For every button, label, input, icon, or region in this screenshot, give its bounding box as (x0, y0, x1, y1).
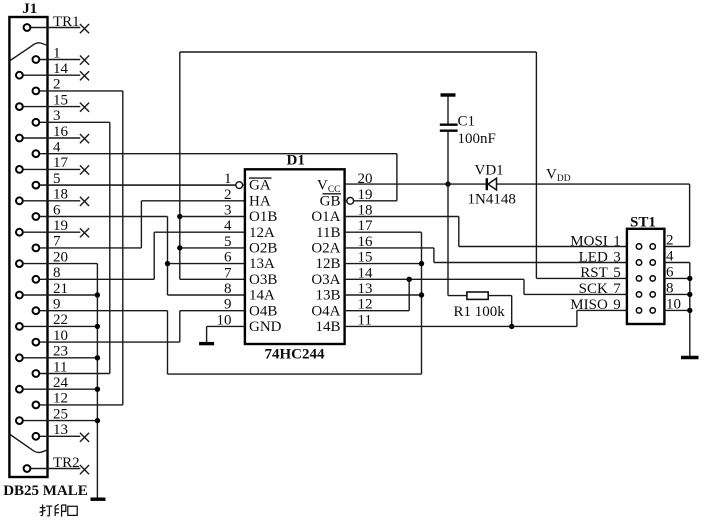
svg-text:SCK: SCK (579, 281, 608, 297)
svg-text:23: 23 (53, 344, 68, 360)
wire O1B/O2B/O3B bus with top route to RST (179, 52, 181, 279)
J1 pin 9 (33, 307, 40, 314)
svg-text:6: 6 (53, 202, 61, 218)
svg-text:C1: C1 (458, 114, 476, 130)
svg-text:22: 22 (53, 312, 68, 328)
ST1 pin 3 (LED) (636, 260, 641, 265)
junction R1 to MISO/14B line (509, 324, 514, 329)
svg-text:VDD: VDD (546, 167, 571, 185)
J1 chinese label (printer port) (39, 505, 52, 516)
svg-text:1: 1 (613, 233, 621, 249)
J1 pin 11 (33, 370, 40, 377)
svg-text:15: 15 (53, 92, 68, 108)
wire J1.2 to J1.12 loopback (122, 91, 124, 405)
svg-text:5: 5 (613, 265, 621, 281)
wire J1.3 to J1.11 loopback (109, 122, 111, 373)
junction 13B (419, 292, 424, 297)
J1 pin 7 (33, 245, 40, 252)
J1 pin TR2 (no connect) (24, 465, 31, 472)
wire VCC rail (pin20) to VDD / ST1.2 (345, 183, 690, 185)
J1 pin 8 (33, 276, 40, 283)
svg-text:O1B: O1B (249, 209, 277, 225)
svg-text:14A: 14A (249, 288, 275, 304)
wire 11B/12B/13B bus (345, 231, 422, 233)
svg-text:13: 13 (53, 422, 68, 438)
diode VD1 1N4148 (486, 178, 488, 190)
svg-text:74HC244: 74HC244 (265, 347, 326, 363)
wire J1.5 to GA (40, 184, 245, 186)
wire 14B to MISO (345, 325, 577, 327)
svg-text:RST: RST (580, 265, 608, 281)
svg-text:TR1: TR1 (53, 14, 80, 30)
ST1 pin 8 (650, 292, 655, 297)
ground (below ST1) (681, 356, 699, 359)
svg-text:19: 19 (358, 187, 373, 203)
svg-text:TR2: TR2 (53, 455, 80, 471)
wire O1A to MOSI (345, 216, 459, 218)
svg-text:9: 9 (613, 297, 621, 313)
svg-text:D1: D1 (287, 153, 305, 169)
svg-text:10: 10 (53, 328, 68, 344)
J1 pin 24 (16, 386, 23, 393)
svg-text:11B: 11B (316, 225, 340, 241)
svg-text:8: 8 (53, 265, 61, 281)
svg-text:7: 7 (613, 281, 621, 297)
svg-text:6: 6 (224, 250, 232, 266)
wire O2A to LED (345, 247, 434, 249)
J1 pin 16 (no connect) (16, 135, 23, 142)
svg-text:13A: 13A (249, 256, 275, 272)
ground (below J1) (91, 498, 106, 501)
wire ST1.2 stub (664, 246, 689, 248)
J1 pin 22 (16, 323, 23, 330)
junction J1.24 (95, 387, 100, 392)
svg-text:GB: GB (320, 193, 341, 209)
svg-text:O1A: O1A (311, 209, 340, 225)
junction ST1.6 (687, 276, 692, 281)
J1 pin 1 (no connect) (33, 56, 40, 63)
svg-text:O2B: O2B (249, 241, 277, 257)
wire J1.10 to O4B (179, 311, 181, 342)
J1 pin TR1 (no connect) (24, 24, 31, 31)
J1 pin 5 (33, 182, 40, 189)
svg-text:21: 21 (53, 281, 68, 297)
junction O2B (177, 245, 182, 250)
svg-text:14: 14 (53, 61, 69, 77)
D1 pin 1 bubble (GA input) (236, 182, 243, 189)
svg-text:12: 12 (53, 391, 68, 407)
wire RST from top route (536, 277, 627, 279)
J1 pin 12 (33, 402, 40, 409)
J1 pin 21 (16, 292, 23, 299)
svg-text:12B: 12B (315, 256, 340, 272)
svg-text:ST1: ST1 (630, 215, 656, 231)
junction ST1.8 (687, 292, 692, 297)
D1 right pin name GB (pin 19) (323, 193, 342, 195)
svg-text:MISO: MISO (570, 297, 608, 313)
svg-text:9: 9 (224, 297, 232, 313)
ST1 pin 4 (650, 260, 655, 265)
svg-text:24: 24 (53, 375, 69, 391)
svg-text:O3A: O3A (311, 272, 340, 288)
svg-text:7: 7 (224, 265, 232, 281)
svg-text:12A: 12A (249, 225, 275, 241)
svg-text:7: 7 (53, 234, 61, 250)
ST1 pin 7 (SCK) (636, 292, 641, 297)
J1 pin 3 (33, 119, 40, 126)
J1 pin 4 (33, 150, 40, 157)
J1 pin 13 (no connect) (33, 433, 40, 440)
junction J1.22 (95, 324, 100, 329)
svg-text:10: 10 (217, 312, 232, 328)
ST1 pin 9 (MISO) (636, 308, 641, 313)
D1 left pin name GA (pin 1) (249, 177, 272, 179)
svg-text:19: 19 (53, 218, 68, 234)
svg-text:13B: 13B (315, 288, 340, 304)
junction C1/R1 tap on VCC rail (445, 181, 450, 186)
junction 12B (419, 261, 424, 266)
J1 pin 19 (no connect) (16, 229, 23, 236)
wire J1.20 to ground bus (96, 264, 98, 498)
svg-text:3: 3 (613, 249, 621, 265)
svg-text:9: 9 (53, 297, 61, 313)
ground (below IC pin 10) (206, 326, 208, 342)
wire J1.6 to 13A/14A (167, 217, 169, 296)
J1 pin 14 (no connect) (16, 72, 23, 79)
J1 pin 20 (16, 260, 23, 267)
svg-text:LED: LED (579, 249, 608, 265)
svg-text:3: 3 (224, 203, 232, 219)
svg-text:DB25 MALE: DB25 MALE (3, 483, 88, 499)
svg-text:VD1: VD1 (475, 163, 504, 179)
wire ST1.4/6/8/10 to ground (664, 262, 689, 264)
svg-text:1: 1 (224, 171, 232, 187)
junction ST1.10 (687, 308, 692, 313)
svg-text:O3B: O3B (249, 272, 277, 288)
svg-text:25: 25 (53, 406, 68, 422)
svg-text:J1: J1 (22, 1, 37, 17)
op-amp/buffer IC D1 74HC244 body (245, 169, 345, 344)
J1 pin 15 (no connect) (16, 103, 23, 110)
wire J1.9 down and right to 11B net (167, 311, 169, 374)
svg-text:8: 8 (224, 281, 232, 297)
connector J1 (DB25) body (9, 17, 47, 477)
J1 pin 17 (no connect) (16, 166, 23, 173)
wire O3A/O4A to SCK (345, 278, 524, 280)
svg-text:GA: GA (249, 178, 271, 194)
svg-text:4: 4 (53, 140, 61, 156)
junction O3A/O4A (407, 277, 412, 282)
ST1 pin 6 (650, 276, 655, 281)
svg-text:O2A: O2A (311, 241, 340, 257)
svg-text:R1 100k: R1 100k (454, 304, 506, 320)
J1 pin 2 (33, 88, 40, 95)
J1 pin 18 (no connect) (16, 197, 23, 204)
junction O1B (177, 214, 182, 219)
svg-text:O4B: O4B (249, 303, 277, 319)
svg-text:HA: HA (249, 193, 271, 209)
svg-text:2: 2 (53, 77, 61, 93)
svg-text:2: 2 (224, 187, 232, 203)
connector ST1 body (627, 229, 665, 324)
ST1 pin 1 (MOSI) (636, 244, 641, 249)
svg-text:GND: GND (249, 319, 282, 335)
svg-text:5: 5 (224, 234, 232, 250)
svg-text:11: 11 (53, 359, 67, 375)
wire GB up to J1.4 route (345, 200, 397, 202)
wire IC GND pin to ground (207, 325, 245, 327)
J1 pin 25 (16, 417, 23, 424)
junction J1.21 (95, 292, 100, 297)
svg-text:18: 18 (53, 187, 68, 203)
svg-text:14B: 14B (315, 319, 340, 335)
junction J1.23 (95, 355, 100, 360)
resistor R1 100k (447, 184, 449, 296)
wire J1.8 to 12A (153, 232, 155, 279)
capacitor C1 100nF (441, 93, 456, 96)
svg-text:16: 16 (53, 124, 69, 140)
svg-text:O4A: O4A (311, 303, 340, 319)
svg-text:1: 1 (53, 45, 61, 61)
svg-text:1N4148: 1N4148 (468, 192, 516, 208)
svg-text:MOSI: MOSI (570, 233, 608, 249)
D1 pin 19 bubble (GB input) (347, 197, 354, 204)
ST1 pin 5 (RST) (636, 276, 641, 281)
J1 pin 6 (33, 213, 40, 220)
junction J1.25 (95, 418, 100, 423)
junction 13A (165, 261, 170, 266)
svg-text:4: 4 (224, 218, 232, 234)
ST1 pin 10 (650, 308, 655, 313)
svg-text:17: 17 (53, 155, 69, 171)
svg-text:20: 20 (53, 249, 68, 265)
svg-text:3: 3 (53, 108, 61, 124)
J1 pin 10 (33, 339, 40, 346)
wire J1.7 to HA (140, 201, 142, 248)
ST1 pin 2 (650, 244, 655, 249)
svg-text:100nF: 100nF (458, 131, 496, 147)
J1 pin 23 (16, 354, 23, 361)
